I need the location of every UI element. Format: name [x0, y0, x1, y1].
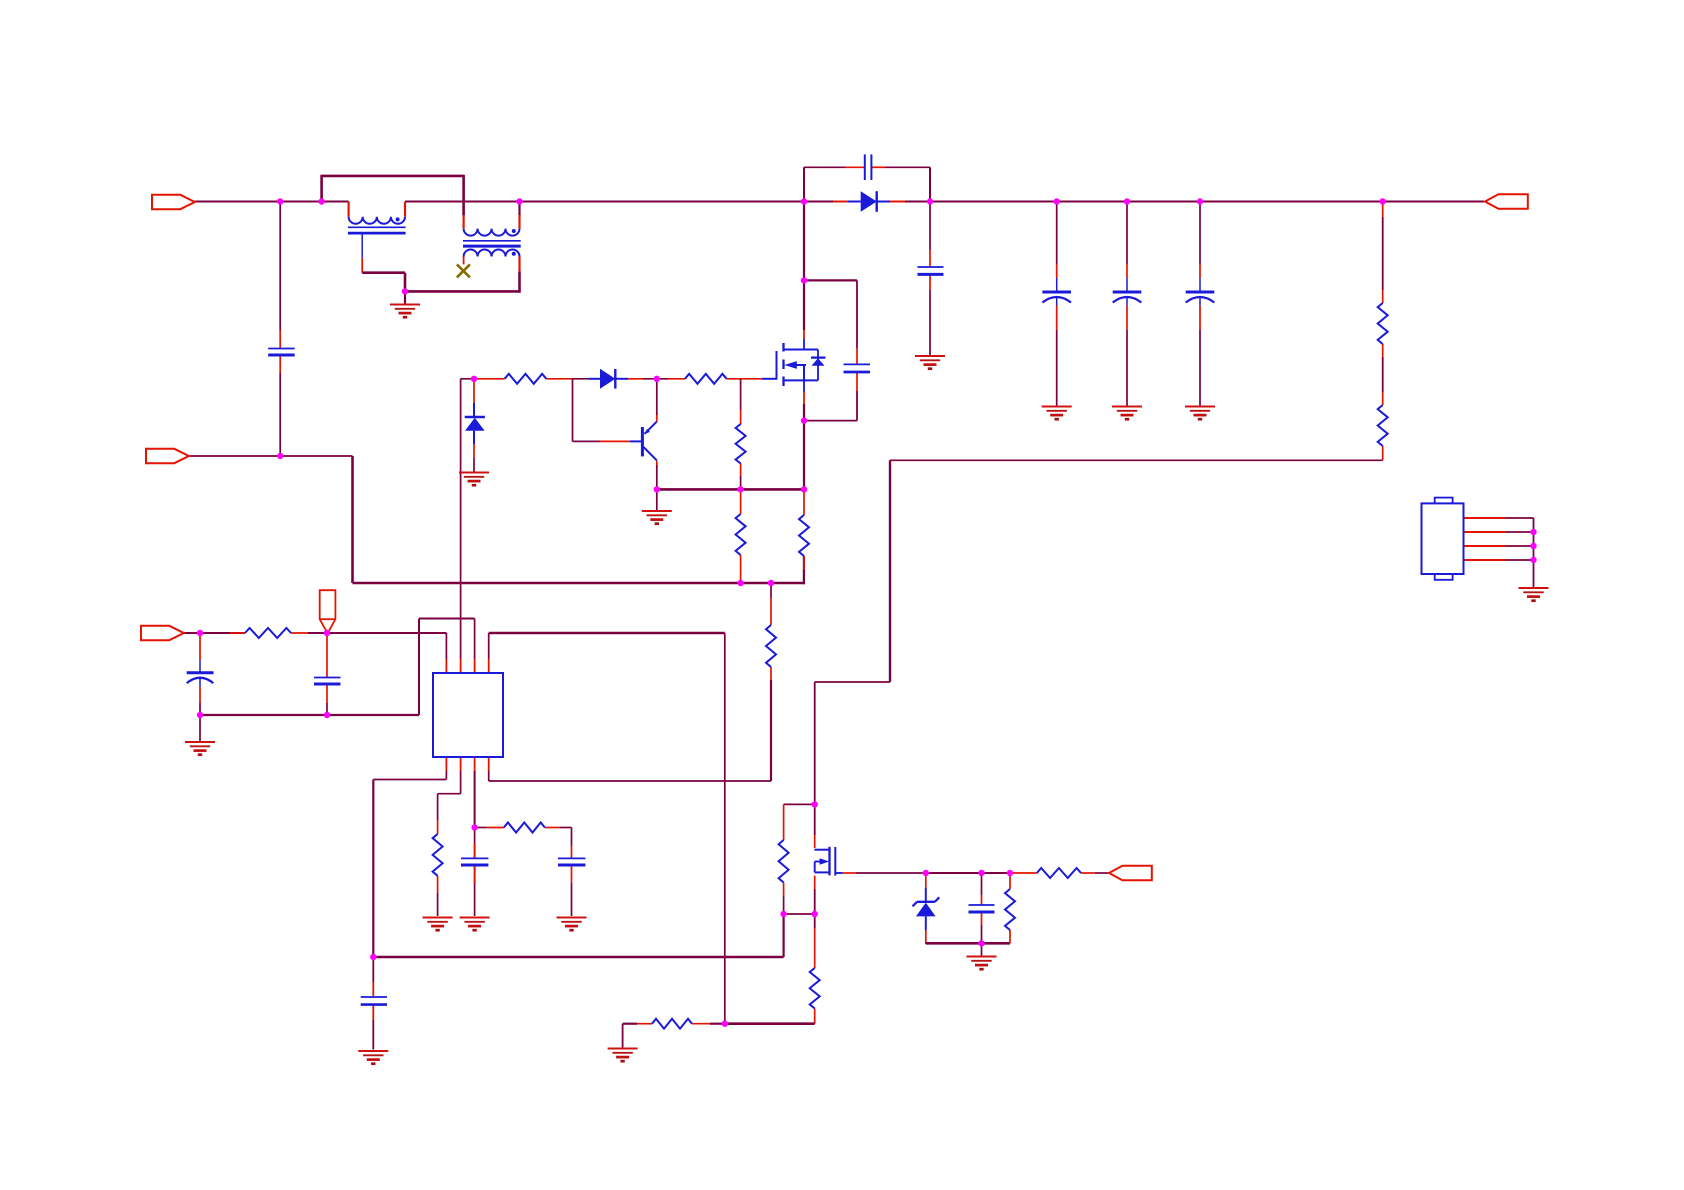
wire — [890, 459, 1383, 461]
transformer T1 — [463, 229, 521, 257]
wire — [856, 280, 858, 348]
wire — [1464, 559, 1507, 561]
ground — [608, 1049, 638, 1062]
capacitor C2 — [865, 154, 872, 180]
wire — [475, 827, 487, 829]
wire — [326, 633, 328, 678]
wire — [189, 455, 353, 457]
wire — [929, 250, 931, 267]
wire — [195, 201, 349, 203]
junction — [277, 198, 283, 204]
transistor Q2 — [814, 847, 842, 876]
wire — [1533, 518, 1535, 587]
resistor R16 — [736, 514, 746, 555]
wire — [814, 876, 816, 889]
wire — [623, 1023, 637, 1025]
capacitor C11 — [558, 858, 585, 865]
wire — [814, 889, 816, 914]
resistor R9 — [433, 834, 443, 876]
capacitor C12 — [361, 997, 387, 1005]
IC U1 — [433, 673, 503, 757]
wire — [668, 378, 685, 380]
wire — [770, 598, 772, 625]
wire — [803, 330, 805, 339]
resistor R14 — [1005, 889, 1015, 930]
wire — [462, 175, 465, 216]
wire — [571, 846, 573, 858]
wire — [518, 271, 521, 292]
wire — [925, 930, 927, 944]
wire — [348, 202, 350, 217]
junction — [780, 911, 786, 917]
capacitor C13 — [969, 905, 995, 912]
wire — [929, 202, 931, 251]
capacitor C9 — [314, 678, 341, 685]
wire — [571, 865, 573, 883]
wire — [628, 378, 643, 380]
wire — [460, 379, 462, 659]
wire — [373, 956, 783, 959]
wire — [929, 274, 931, 290]
wire — [1382, 202, 1384, 218]
ground — [1112, 407, 1142, 420]
wire — [445, 757, 447, 771]
junction — [1007, 870, 1013, 876]
wire — [474, 757, 476, 771]
wire — [320, 175, 323, 202]
power flag — [320, 590, 336, 633]
wire — [199, 715, 201, 741]
wire — [437, 794, 439, 820]
wire — [724, 633, 726, 1024]
junction — [197, 630, 203, 636]
junction — [324, 712, 330, 718]
wire — [803, 421, 805, 490]
junction — [801, 486, 807, 492]
wire — [573, 440, 601, 442]
wire — [438, 793, 461, 795]
wire — [279, 330, 281, 349]
wire — [783, 883, 785, 897]
wire — [890, 201, 905, 203]
resistor R10 — [504, 823, 545, 833]
wire — [1199, 202, 1201, 265]
wire — [981, 912, 983, 925]
wire — [1382, 217, 1384, 290]
wire — [833, 201, 848, 203]
wire — [856, 872, 926, 874]
wire — [199, 660, 201, 673]
wire — [463, 215, 465, 228]
junction — [978, 870, 984, 876]
wire — [843, 872, 856, 874]
wire — [445, 771, 447, 780]
wire — [814, 804, 816, 835]
junction — [801, 277, 807, 283]
junction — [1530, 529, 1536, 535]
junction — [277, 453, 283, 459]
wire — [571, 828, 573, 847]
capacitor C5 — [1113, 292, 1142, 306]
wire — [322, 175, 464, 178]
wire — [572, 379, 574, 442]
wire — [1056, 278, 1058, 292]
wire — [437, 876, 439, 893]
wire — [279, 373, 281, 456]
junction — [737, 580, 743, 586]
junction — [1124, 198, 1130, 204]
wire — [1382, 392, 1384, 405]
wire — [740, 489, 742, 514]
junction — [402, 288, 408, 294]
wire — [1056, 264, 1058, 278]
ground — [557, 918, 587, 931]
wire — [814, 835, 816, 848]
junction — [654, 376, 660, 382]
junction — [471, 376, 477, 382]
wire — [1382, 290, 1384, 303]
wire — [622, 1024, 624, 1048]
ground — [967, 957, 997, 970]
wire — [856, 372, 858, 391]
capacitor C7 — [844, 364, 871, 372]
port P1 — [152, 195, 195, 209]
junction — [737, 486, 743, 492]
wire — [981, 925, 983, 956]
wire — [488, 659, 490, 673]
wire — [1199, 330, 1201, 406]
ground — [460, 918, 490, 931]
junction — [1054, 198, 1060, 204]
resistor R7 — [766, 625, 776, 667]
junction — [801, 417, 807, 423]
wire — [1382, 344, 1384, 357]
wire — [545, 827, 560, 829]
wire — [804, 166, 845, 168]
resistor R2 — [1378, 405, 1388, 446]
wire — [905, 201, 1484, 203]
wire — [445, 633, 447, 659]
wire — [474, 828, 476, 844]
ground — [1042, 407, 1072, 420]
wire — [1506, 517, 1534, 519]
ground — [1185, 407, 1215, 420]
wire — [445, 659, 447, 673]
wire — [372, 1005, 374, 1020]
wire — [184, 632, 245, 634]
wire — [373, 779, 446, 781]
wire — [488, 757, 490, 771]
wire — [803, 556, 805, 584]
junction — [801, 198, 807, 204]
wire — [1464, 531, 1507, 533]
capacitor C4 — [1042, 292, 1071, 306]
wire — [981, 873, 983, 895]
wire — [1382, 446, 1384, 460]
port P5 — [1109, 866, 1152, 880]
wire — [782, 914, 784, 957]
wire — [1126, 264, 1128, 278]
transistor Q3 — [630, 422, 657, 461]
wire — [372, 780, 374, 958]
wire — [803, 380, 805, 392]
wire — [692, 1023, 710, 1025]
capacitor C10 — [461, 858, 488, 865]
wire — [845, 166, 865, 168]
wire — [460, 771, 462, 794]
wire — [199, 633, 201, 660]
ground — [642, 511, 672, 524]
junction — [1197, 198, 1203, 204]
diode D2 — [589, 369, 628, 389]
connector J1 — [1422, 498, 1464, 580]
resistor R6 — [799, 515, 809, 556]
wire — [803, 556, 805, 570]
wire — [1464, 545, 1507, 547]
wire — [473, 458, 475, 472]
wire — [770, 680, 772, 781]
wire — [929, 167, 931, 201]
wire — [351, 456, 354, 583]
wire — [804, 420, 857, 422]
resistor R4 — [685, 374, 727, 384]
ground — [423, 918, 453, 931]
wire — [200, 714, 419, 716]
junction — [927, 198, 933, 204]
wire — [1010, 872, 1037, 874]
wire — [437, 820, 439, 834]
wire — [1126, 330, 1128, 406]
resistor R5 — [736, 424, 746, 464]
wire — [783, 896, 785, 914]
wire — [463, 257, 465, 265]
capacitor C8 — [187, 673, 214, 687]
wire — [803, 167, 805, 201]
wire — [770, 583, 772, 598]
wire — [460, 659, 462, 673]
wire — [784, 803, 815, 805]
wire — [372, 982, 374, 997]
resistor R13 — [652, 1019, 692, 1029]
wire — [925, 873, 927, 888]
wire — [230, 632, 245, 634]
junction — [370, 954, 376, 960]
junction — [768, 580, 774, 586]
wire — [982, 872, 1011, 874]
capacitor C6 — [1186, 292, 1215, 306]
junction — [654, 486, 660, 492]
wire — [489, 780, 771, 782]
wire — [727, 378, 762, 380]
junction — [318, 198, 324, 204]
wire — [804, 279, 857, 281]
resistor R8 — [245, 628, 291, 638]
wire — [518, 202, 520, 216]
wire — [361, 258, 363, 273]
wire — [1126, 202, 1128, 265]
wire — [487, 827, 504, 829]
wire — [656, 489, 658, 510]
junction — [471, 824, 477, 830]
wire — [473, 379, 475, 403]
ground — [1519, 588, 1549, 601]
inductor L1 — [348, 217, 406, 258]
port P4 — [1485, 194, 1528, 208]
junction — [324, 630, 330, 636]
ground — [185, 742, 215, 755]
wire — [404, 202, 406, 217]
wire — [871, 166, 885, 168]
wire — [710, 1023, 725, 1025]
no-connect X — [457, 264, 470, 277]
wire — [418, 619, 420, 716]
wire — [814, 928, 816, 968]
wire — [1095, 872, 1109, 874]
wire — [520, 201, 834, 203]
junction — [722, 1021, 728, 1027]
wire — [291, 632, 308, 634]
wire — [889, 460, 891, 682]
wire — [656, 415, 658, 422]
wire — [784, 913, 815, 915]
wire — [518, 215, 520, 229]
wire — [740, 410, 742, 424]
wire — [474, 865, 476, 883]
resistor R11 — [779, 840, 789, 883]
wire — [308, 632, 446, 634]
transistor Q1 — [762, 343, 825, 386]
wire — [803, 280, 805, 330]
wire — [856, 391, 858, 421]
resistor R1 — [1378, 303, 1388, 344]
wire — [460, 757, 462, 771]
wire — [1056, 202, 1058, 265]
ground — [358, 1051, 388, 1064]
wire — [657, 488, 804, 491]
wire — [474, 659, 476, 673]
wire — [279, 355, 281, 373]
wire — [474, 883, 476, 916]
wire — [1506, 545, 1534, 547]
wire — [405, 201, 520, 203]
wire — [1081, 872, 1095, 874]
resistor R15 — [1037, 868, 1081, 878]
wire — [474, 619, 476, 660]
junction — [1530, 543, 1536, 549]
wire — [326, 684, 328, 703]
wire — [803, 392, 805, 404]
wire — [770, 667, 772, 680]
wire — [488, 771, 490, 781]
wire — [1506, 531, 1534, 533]
port P2 — [146, 449, 189, 463]
wire — [740, 463, 742, 476]
wire — [199, 687, 201, 703]
wire — [856, 348, 858, 364]
wire — [1126, 278, 1128, 292]
wire — [981, 895, 983, 905]
wire — [571, 883, 573, 916]
wire — [740, 476, 742, 489]
capacitor C3 — [918, 267, 944, 274]
wire — [656, 461, 658, 465]
wire — [476, 378, 505, 380]
wire — [1199, 264, 1201, 278]
wire — [1199, 278, 1201, 292]
wire — [1056, 330, 1058, 406]
wire — [1009, 873, 1011, 889]
wire — [461, 378, 476, 380]
wire — [803, 489, 805, 515]
wire — [929, 290, 931, 355]
junction — [812, 801, 818, 807]
wire — [279, 202, 281, 331]
wire — [353, 582, 804, 585]
junction — [1530, 557, 1536, 563]
wire — [926, 942, 1010, 945]
wire — [1199, 306, 1201, 331]
resistor R3 — [505, 374, 547, 384]
wire — [372, 957, 374, 982]
junction — [1380, 198, 1386, 204]
wire — [803, 404, 805, 421]
wire — [656, 465, 658, 489]
wire — [474, 771, 476, 828]
diode D1 — [848, 191, 890, 212]
wire — [814, 682, 816, 804]
zener Z1 — [913, 888, 940, 930]
wire — [362, 271, 405, 274]
wire — [740, 555, 742, 583]
wire — [803, 339, 805, 350]
junction — [812, 911, 818, 917]
wire — [600, 440, 630, 442]
wire — [419, 618, 475, 620]
wire — [740, 379, 742, 410]
junction — [197, 712, 203, 718]
wire — [725, 1022, 815, 1025]
wire — [518, 257, 520, 272]
junction — [923, 870, 929, 876]
diode D3 — [465, 403, 485, 444]
ground — [915, 356, 945, 369]
wire — [783, 826, 785, 840]
wire — [814, 1009, 816, 1024]
wire — [885, 166, 930, 168]
wire — [926, 872, 982, 874]
wire — [405, 290, 520, 293]
wire — [1382, 357, 1384, 392]
resistor R12 — [810, 968, 820, 1009]
wire — [1009, 930, 1011, 943]
wire — [637, 1023, 652, 1025]
wire — [473, 444, 475, 458]
wire — [546, 378, 572, 380]
ground — [390, 305, 420, 318]
wire — [488, 633, 490, 659]
junction — [516, 198, 522, 204]
wire — [199, 703, 201, 715]
wire — [1464, 517, 1507, 519]
wire — [573, 378, 589, 380]
wire — [372, 1020, 374, 1050]
port P3 — [141, 626, 184, 640]
wire — [437, 893, 439, 916]
wire — [474, 843, 476, 858]
wire — [560, 827, 572, 829]
wire — [1506, 559, 1534, 561]
wire — [404, 291, 406, 303]
